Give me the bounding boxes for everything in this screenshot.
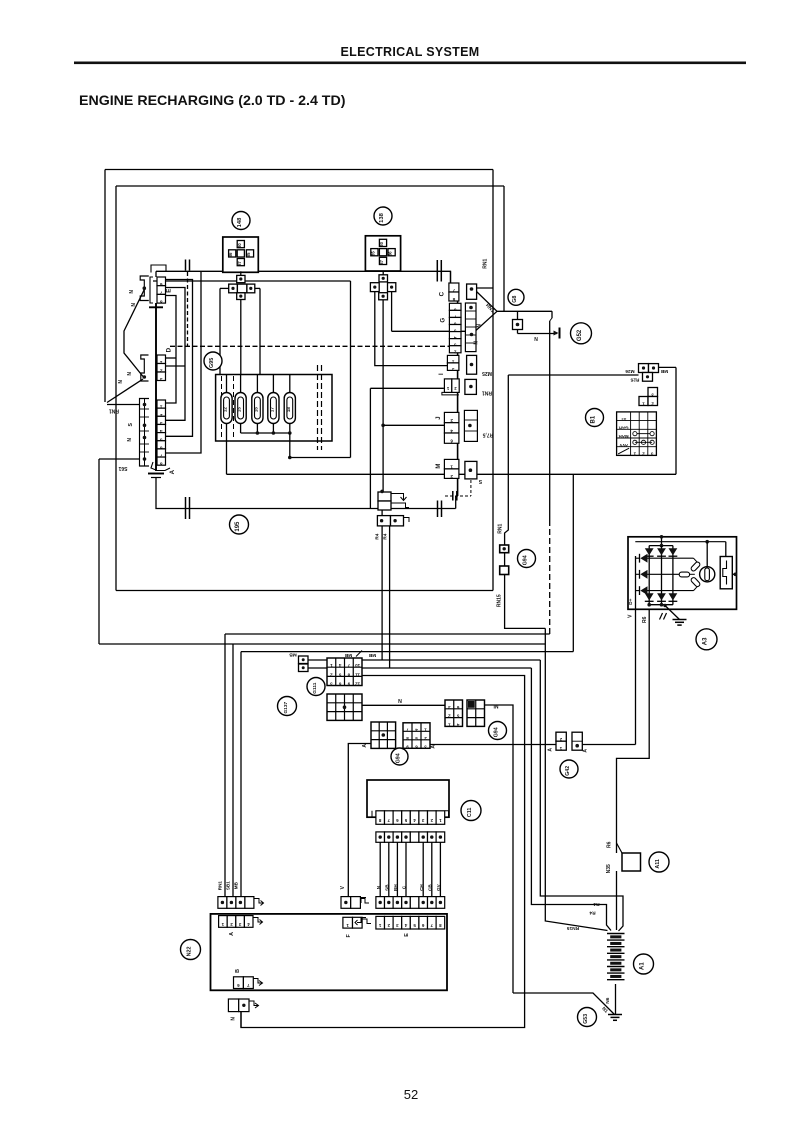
component label circle B1 — [586, 409, 604, 427]
svg-text:195: 195 — [235, 521, 241, 532]
svg-text:12: 12 — [355, 681, 360, 686]
svg-text:G8: G8 — [512, 296, 518, 303]
connector E row on N22 — [376, 916, 385, 929]
component label circle G95 — [204, 352, 222, 370]
wire bus drop into connector C — [450, 271, 452, 283]
component label circle G52 — [571, 323, 592, 344]
svg-text:R4: R4 — [589, 910, 595, 916]
wires C11 harness — [379, 842, 381, 896]
svg-text:J: J — [436, 416, 442, 419]
wire B1 top edge y375 — [508, 374, 638, 376]
svg-text:RN1: RN1 — [498, 524, 504, 534]
connector I mating dot cell — [465, 379, 477, 394]
alternator bridge columns — [648, 546, 650, 605]
harness connector bent pin — [254, 899, 263, 904]
relay 148 box — [223, 237, 258, 272]
wire fuse 17 bottom lead — [272, 424, 274, 434]
component label circle G8 — [508, 289, 524, 305]
fusebox inline connector dashed pair right — [317, 365, 319, 450]
wire left border x99 down — [98, 459, 100, 644]
wire dot cell to alternator drop — [582, 744, 635, 746]
svg-text:R7,5: R7,5 — [483, 431, 494, 437]
svg-text:MB: MB — [234, 881, 239, 889]
wire harness SB1 drop x233 — [232, 644, 234, 897]
divider diagonal at G111 — [356, 651, 362, 657]
wire fuse 15 bottom lead — [240, 424, 242, 434]
component label circle G53 — [578, 1008, 597, 1027]
wire grid4 left to x348 drop — [348, 744, 371, 897]
connector G mating bracket — [465, 303, 476, 352]
wire relay138 right contact down to y331 — [391, 292, 393, 332]
inline tick on bus y307 — [149, 306, 163, 308]
svg-text:B: B — [235, 969, 241, 973]
svg-text:RN15: RN15 — [567, 925, 580, 931]
wire relay138 bottom contact main drop x383 — [382, 300, 384, 492]
connector A bent pin — [253, 918, 262, 923]
splice component box upper — [378, 492, 391, 501]
wire E cell6 nest x192 — [166, 280, 193, 437]
wire grid3 to x513 drop — [485, 705, 514, 993]
wire R4 splice drop left — [381, 510, 383, 516]
node dots bottom rail — [647, 603, 651, 607]
wire diagonal from G column dot to y311 — [472, 311, 498, 334]
connector grid mate with filled cell — [467, 700, 485, 726]
svg-text:G137: G137 — [283, 701, 289, 713]
alternator phase rail middle — [648, 573, 680, 575]
wire y331 to connector G dot — [392, 331, 472, 334]
svg-text:AVV: AVV — [619, 443, 628, 448]
alternator side diode 1 — [640, 554, 647, 563]
relay 148 socket top contact — [237, 275, 245, 282]
wire fuse 12 top lead — [226, 375, 228, 393]
wire inner box right edge upper segment — [503, 186, 505, 311]
wire relay148 bottom contact down x241 — [240, 300, 242, 375]
alternator diodes top row pointing down — [645, 548, 654, 555]
alternator bridge top rail — [649, 545, 673, 547]
connector A dot cell near G42 — [572, 732, 582, 750]
relay 138 pin 85 — [371, 249, 378, 256]
wire bus drop nest x201 — [166, 271, 202, 453]
node dot rail — [660, 544, 664, 548]
connector E cells — [157, 277, 166, 286]
svg-text:GAR: GAR — [618, 425, 629, 430]
wire fuse 17 top lead — [272, 375, 274, 393]
svg-text:87: 87 — [237, 261, 242, 266]
wire to connector I y388 — [370, 387, 444, 389]
B1 table diagonal cell — [618, 448, 629, 454]
svg-text:R6: R6 — [642, 616, 648, 623]
svg-text:G94: G94 — [523, 555, 529, 565]
svg-text:IN: IN — [494, 705, 499, 711]
relay 138 socket left contact — [370, 283, 379, 292]
component label circle G42 — [560, 760, 578, 778]
svg-text:8: 8 — [160, 299, 163, 304]
fuse 17 — [268, 393, 279, 424]
wire inner box left edge — [115, 186, 117, 591]
connector E bracket flange — [150, 277, 153, 303]
svg-text:G53: G53 — [583, 1014, 589, 1024]
relay 138 socket right contact — [388, 283, 396, 292]
svg-text:S: S — [128, 423, 134, 427]
svg-text:D+: D+ — [628, 598, 634, 604]
svg-text:17: 17 — [269, 407, 274, 413]
wire fuse 12 bottom lead long — [226, 424, 228, 475]
splice output boxes R4 — [377, 516, 390, 526]
wire fuse 18 output down — [289, 433, 291, 458]
svg-text:15: 15 — [237, 407, 242, 413]
wire y634 RN1 harness to G52 line — [225, 633, 550, 635]
connector grid G111 upper — [327, 658, 362, 686]
connector V cell above F — [341, 897, 351, 909]
svg-text:ENGINE RECHARGING (2.0 TD - 2.: ENGINE RECHARGING (2.0 TD - 2.4 TD) — [79, 93, 346, 109]
wire x389 lower drop — [389, 526, 391, 668]
wire bus x156 to y508 corner — [156, 478, 456, 509]
alternator ground branch diagonal — [663, 604, 666, 607]
svg-text:A11: A11 — [655, 859, 661, 869]
alternator phase rail upper — [648, 557, 694, 559]
connector M cells — [444, 459, 459, 469]
relay 138 socket bottom contact — [379, 293, 388, 300]
connector 1-3 cells — [447, 355, 459, 363]
svg-text:SB1: SB1 — [226, 881, 231, 890]
wire y660 relay branch to x540 — [308, 659, 540, 661]
relay 148 socket right contact — [247, 284, 255, 293]
node junction dot fuse output — [288, 456, 292, 460]
wire harness RN1 drop x225 — [224, 634, 226, 897]
B1 table MAR contacts — [633, 432, 637, 436]
relay 148 socket bottom contact — [237, 293, 245, 300]
svg-text:N: N — [477, 324, 483, 328]
splice component box lower — [378, 501, 391, 510]
wire relay148 left contact to x220 — [220, 287, 229, 289]
alternator phase rail lower — [648, 590, 694, 592]
connector S dot cell — [465, 461, 477, 479]
svg-text:M25: M25 — [482, 370, 492, 376]
inline connector bars at M-S link — [452, 491, 454, 501]
svg-text:C: C — [439, 291, 446, 296]
wire secondary bus y281 — [153, 280, 351, 282]
component label circle 138 — [374, 207, 392, 225]
connector D cells — [157, 355, 166, 364]
node dot G bracket N — [470, 333, 474, 337]
svg-text:CH: CH — [419, 884, 424, 891]
unit C11 box — [367, 780, 449, 817]
svg-text:10: 10 — [355, 663, 360, 668]
alternator rotor circle — [700, 567, 715, 582]
connector F row on N22 — [343, 917, 353, 928]
header underline rule — [74, 62, 746, 65]
svg-text:87: 87 — [379, 259, 384, 264]
wire S bottom dot to left border x99 — [99, 458, 140, 460]
wire B1 drop x573 to y651 — [572, 474, 574, 651]
node dot G bracket top — [469, 306, 473, 310]
component label circle A11 — [649, 852, 669, 872]
svg-text:G111: G111 — [312, 682, 318, 694]
relay 148 socket left contact — [229, 284, 238, 293]
svg-text:B1: B1 — [591, 415, 597, 423]
connector R25 box — [643, 373, 653, 382]
wire relay138 socket to bus — [382, 271, 384, 275]
svg-text:MAR: MAR — [618, 434, 629, 439]
connector B on N22 bottom — [234, 977, 244, 989]
harness connector RN1 SB1 MB — [218, 897, 227, 909]
svg-text:D: D — [166, 347, 173, 352]
relay A11 box — [622, 853, 641, 871]
connector A bottom bracket — [151, 462, 170, 471]
wire S top dot to left border — [107, 404, 140, 406]
inline connector box RN1 with dot — [500, 545, 509, 553]
splice output bracket arrow — [404, 518, 410, 523]
connector M25 dot cell — [467, 355, 477, 374]
svg-text:52: 52 — [404, 1087, 418, 1102]
relay 148 center pad — [237, 250, 244, 257]
connector N below box — [228, 999, 238, 1012]
connector grid A right — [403, 723, 430, 749]
wire relay148 socket to bus — [240, 271, 242, 275]
svg-text:N: N — [534, 337, 538, 343]
wire y311 horizontal — [497, 310, 552, 312]
connector J cells — [444, 412, 459, 422]
svg-text:A: A — [548, 748, 554, 752]
wire outer box right edge — [492, 170, 494, 591]
svg-text:G95: G95 — [209, 358, 215, 368]
component label circle 195 — [230, 515, 249, 534]
wire between inline boxes — [504, 553, 506, 566]
wire fuse 18 bottom lead — [289, 424, 291, 434]
inline connector bars x187 above bus — [185, 260, 187, 271]
wire regulator to top rail — [725, 542, 727, 557]
svg-text:RN1: RN1 — [218, 881, 223, 891]
E row left end arrow — [357, 918, 366, 923]
wire battery negative down — [615, 984, 617, 1015]
svg-text:A: A — [169, 469, 176, 474]
inline connector box RN15 — [500, 566, 509, 575]
svg-text:MB: MB — [368, 652, 376, 658]
wire vertical x350 from y281 to fuse bus — [350, 281, 352, 458]
wire B1 left edge x508 — [505, 375, 509, 545]
stator winding lower coil — [690, 577, 701, 588]
node dots on S column — [143, 403, 147, 407]
wire E cell8 nest x176 — [166, 296, 177, 404]
wire x540 drop to battery R4 — [540, 660, 623, 931]
svg-text:3: 3 — [160, 377, 163, 382]
svg-text:11: 11 — [355, 672, 360, 677]
svg-text:GV: GV — [436, 883, 441, 891]
svg-text:16: 16 — [253, 407, 258, 413]
svg-text:MB: MB — [289, 652, 297, 658]
wire y651 MB harness to B1 drop — [241, 651, 573, 653]
node dot in lower grid — [343, 705, 347, 709]
component label circle G94 a — [518, 550, 536, 568]
wire E cell7 nest x185 — [166, 288, 186, 421]
wire N connector drop — [240, 1012, 242, 1028]
wire junction to connector J — [383, 424, 444, 426]
connector N bracket lower — [141, 355, 149, 381]
wire outer box left edge — [104, 170, 106, 403]
ignition switch B1 table — [617, 412, 657, 456]
component label circle C11 — [461, 801, 481, 821]
wire x382 lower drop — [381, 526, 383, 660]
connector N bracket upper — [140, 276, 149, 301]
wire bottom border y644 to RN15 drop — [99, 643, 545, 645]
svg-text:8: 8 — [452, 297, 455, 302]
alternator left bus D+ — [635, 556, 637, 609]
svg-text:N6: N6 — [605, 997, 611, 1003]
wire y675 to x524 battery ground loop — [241, 676, 525, 1028]
inline connector bars on bus near x439 — [436, 260, 438, 282]
svg-text:G94: G94 — [494, 727, 500, 737]
relay 138 pin 87 — [379, 257, 386, 264]
wire diagonal RN1 from C dot — [477, 292, 498, 312]
alternator bottom rail y604 — [649, 604, 673, 606]
alternator side diode 3 — [640, 586, 647, 595]
wire G52 drop dash-dot x549 — [551, 311, 553, 318]
relay 138 pin 86 — [388, 249, 395, 256]
wire regulator right to box edge — [732, 573, 736, 575]
wire D cell stub 1 — [166, 357, 177, 359]
wire G8 box to ground terminal — [517, 330, 519, 334]
fuse 12 — [221, 393, 232, 424]
connector R7.5 bracket — [464, 410, 477, 441]
svg-text:30: 30 — [237, 243, 242, 248]
component label circle G94 c — [391, 748, 408, 765]
alternator side diode 2 — [640, 570, 647, 579]
fuse 15 — [235, 393, 246, 424]
wire x370 from I wire down to y508 — [369, 388, 371, 508]
battery A1 plates — [607, 933, 625, 935]
wire grid to N connector y705 — [362, 704, 445, 706]
svg-text:30: 30 — [379, 241, 384, 246]
inline connector bars on y508 wire — [437, 501, 439, 518]
connector T block pin 3 — [648, 388, 658, 397]
svg-text:N22: N22 — [187, 946, 193, 956]
strip left end arrow — [357, 898, 366, 903]
wire stub box top to rail — [661, 537, 663, 546]
component label circle G94 b — [489, 722, 507, 740]
connector I cells — [444, 379, 451, 393]
wire RN15 drop to y628 — [505, 575, 546, 629]
ground symbol alternator — [673, 619, 687, 621]
component label circle 148 — [232, 212, 250, 230]
alternator A3 box — [628, 537, 737, 610]
stator winding upper coil — [690, 561, 701, 572]
svg-text:N: N — [127, 438, 133, 442]
component label circle G111 — [307, 678, 325, 696]
relay 138 pin 30 — [379, 239, 386, 246]
svg-text:CB: CB — [428, 884, 433, 891]
wire right column bus x457 — [457, 283, 459, 496]
relay 148 pin 30 — [237, 241, 244, 248]
relay 138 socket top contact — [379, 275, 388, 282]
bus bar x156 E to A — [155, 271, 157, 277]
wire fuse 16 top lead — [256, 375, 258, 393]
svg-text:N: N — [231, 1017, 237, 1021]
connector A cells — [157, 400, 166, 408]
svg-text:RN1: RN1 — [483, 259, 489, 269]
unit C11 pin row side notches — [372, 811, 376, 817]
relay 148 socket center contact — [237, 284, 247, 293]
relay 138 center pad — [379, 249, 386, 256]
connector A pair cells near G42 — [556, 732, 566, 741]
component label circle A3 — [696, 629, 717, 650]
svg-text:86: 86 — [228, 252, 233, 257]
svg-text:85: 85 — [246, 252, 251, 257]
wire fuse 16 bottom lead — [256, 424, 258, 434]
component label circle A1 — [634, 954, 654, 974]
svg-text:M26: M26 — [625, 368, 635, 374]
svg-text:N: N — [474, 341, 480, 345]
svg-text:BH: BH — [393, 884, 398, 891]
svg-text:ST: ST — [620, 417, 626, 422]
component label circle N22 — [181, 940, 201, 960]
svg-text:A: A — [229, 932, 235, 936]
wire inner box bottom edge — [116, 590, 493, 592]
connector T block pins 1-2 — [639, 397, 648, 406]
connector E top cap — [151, 265, 166, 273]
ground terminal bar — [559, 328, 561, 339]
connector G cells — [449, 303, 461, 310]
wire fuse 15 top lead — [240, 375, 242, 393]
svg-text:R4: R4 — [383, 533, 389, 539]
wire stub from right edge to connector C dot — [477, 287, 494, 289]
wire y993 to ground diagonal — [513, 993, 615, 1015]
relay 138 box — [365, 236, 400, 271]
splice bracket lower with arrow — [391, 503, 409, 508]
wire grid5 to alternator connector y744 — [430, 744, 556, 746]
B1 table AVV contacts — [633, 440, 637, 444]
unit N22 box — [211, 914, 448, 990]
svg-text:M: M — [436, 464, 442, 469]
node dot at box right edge — [734, 573, 738, 577]
connector C mating dot cell — [467, 284, 477, 299]
svg-text:A: A — [431, 745, 437, 749]
node dot alternator top edge — [660, 535, 664, 539]
inline connector bars x185-189 on y508 — [185, 497, 187, 519]
wire relay138 left contact down then right to connector 1-3 — [375, 292, 447, 366]
connector grid 321-654 — [445, 700, 463, 726]
wire x220 down to fusebox — [219, 288, 221, 374]
svg-text:R4: R4 — [375, 533, 381, 539]
svg-text:G42: G42 — [565, 766, 571, 776]
relay 148 pin 87 — [237, 259, 244, 266]
svg-text:RN15: RN15 — [497, 594, 503, 607]
wire D cell stub 2 — [166, 365, 186, 367]
wire fuse internal bus y433 — [241, 432, 290, 434]
fusebox internal dashed divider left — [221, 376, 223, 439]
svg-text:A: A — [362, 744, 368, 748]
wire fuse bus junction horizontal y457 — [290, 457, 351, 459]
svg-text:A1: A1 — [640, 962, 646, 970]
wire x260 down to fusebox — [259, 288, 261, 374]
alternator diodes bottom row pointing down — [645, 593, 654, 600]
svg-text:138: 138 — [379, 212, 385, 222]
ground symbol battery — [608, 1014, 622, 1016]
node contact dot on N bracket upper — [143, 286, 147, 290]
connector strip below C11 — [376, 832, 385, 842]
wire diagonal from N bracket down-left — [124, 290, 144, 377]
svg-text:148: 148 — [237, 217, 243, 227]
svg-text:E: E — [166, 289, 173, 293]
fusebox G95 outline — [216, 375, 332, 442]
wire x531 drop to battery R4 — [531, 668, 611, 931]
connector strip above N22 — [376, 897, 385, 909]
wire B1 top jog y367 — [659, 366, 677, 368]
stator Y junction lines — [690, 573, 695, 575]
connector C cells — [449, 283, 459, 292]
svg-text:A: A — [583, 749, 589, 753]
svg-text:E: E — [404, 933, 410, 937]
svg-text:G: G — [440, 318, 447, 323]
